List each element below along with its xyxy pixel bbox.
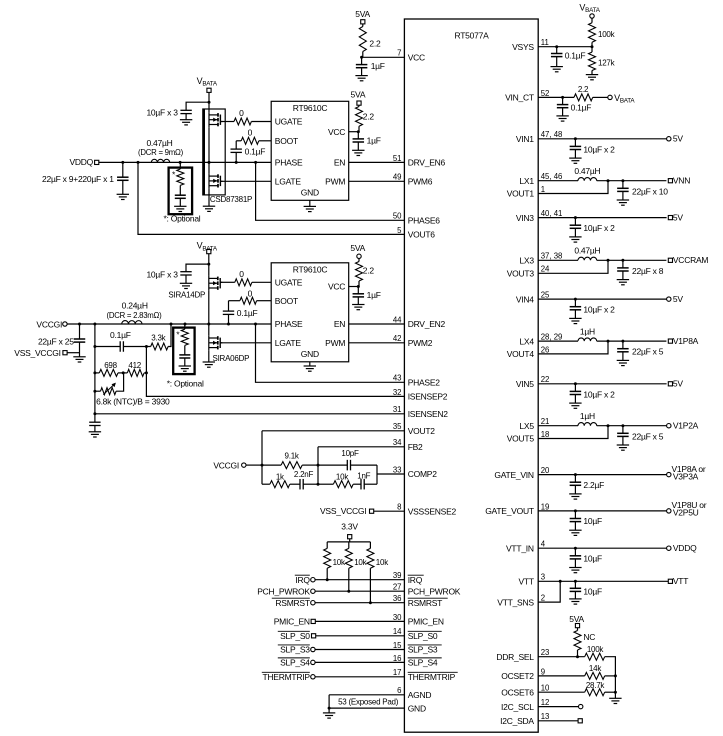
svg-text:SLP_S0: SLP_S0 — [280, 631, 310, 641]
svg-text:10µF x 2: 10µF x 2 — [583, 223, 615, 233]
svg-text:PWM2: PWM2 — [408, 338, 433, 348]
svg-text:VIN4: VIN4 — [516, 294, 534, 304]
ground (GATE_VIN cap) — [569, 493, 581, 495]
node 412/nodeB — [145, 371, 148, 374]
capacitor 0.1uF (BOOT 1) — [235, 141, 237, 149]
svg-text:43: 43 — [393, 374, 402, 383]
svg-text:EN: EN — [334, 319, 345, 329]
svg-text:ISENSEN2: ISENSEN2 — [408, 409, 449, 419]
svg-text:V2P5U: V2P5U — [673, 508, 699, 518]
svg-text:2.2µF: 2.2µF — [583, 480, 604, 490]
ground (LX3 cap) — [617, 279, 629, 281]
svg-text:UGATE: UGATE — [275, 117, 303, 127]
wire VOUT sense (LX1) — [538, 181, 608, 194]
port V1P8U or (GATE_VOUT) — [667, 509, 671, 513]
svg-text:LGATE: LGATE — [275, 177, 302, 187]
svg-text:RT9610C: RT9610C — [293, 103, 328, 113]
svg-text:VOUT1: VOUT1 — [507, 189, 535, 199]
svg-text:2.2: 2.2 — [369, 38, 381, 48]
svg-text:OCSET6: OCSET6 — [501, 687, 534, 697]
svg-text:5VA: 5VA — [569, 614, 584, 624]
svg-text:28, 29: 28, 29 — [541, 333, 563, 342]
svg-text:LX5: LX5 — [519, 421, 534, 431]
wire LGATE 2 — [220, 342, 271, 344]
svg-text:1µH: 1µH — [580, 411, 595, 421]
svg-text:PHASE2: PHASE2 — [408, 378, 441, 388]
svg-text:ISENSEP2: ISENSEP2 — [408, 392, 448, 402]
node boot cap / phase 2 — [227, 323, 230, 326]
node OCSET6 bus — [614, 691, 617, 694]
wire 5VA to R — [362, 24, 364, 27]
capacitor 10µF x 2 (VIN1) — [574, 139, 576, 147]
resistor 10k (PCH_PWROK) — [348, 542, 350, 549]
svg-text:VOUT6: VOUT6 — [408, 230, 436, 240]
svg-text:1µH: 1µH — [580, 327, 595, 337]
svg-text:10µF: 10µF — [583, 554, 602, 564]
node VDDQ bulk cap — [121, 161, 124, 164]
wire VSS_VCCGI to cap — [67, 352, 79, 354]
svg-text:32: 32 — [393, 388, 402, 397]
svg-text:33: 33 — [393, 465, 402, 474]
svg-text:35: 35 — [393, 422, 402, 431]
node FB2 top — [317, 464, 320, 467]
svg-text:20: 20 — [541, 466, 550, 475]
svg-text:31: 31 — [393, 405, 402, 414]
ground (input caps 1) — [180, 119, 192, 121]
svg-text:IRQ: IRQ — [408, 575, 423, 585]
node GATE_VIN cap — [574, 473, 577, 476]
svg-text:THERMTRIP: THERMTRIP — [408, 672, 456, 682]
ground (VSYS divider) — [586, 74, 598, 76]
svg-text:6: 6 — [397, 686, 401, 695]
transistor Q1 high-side (CSD87381P) — [208, 112, 210, 127]
wire VSYS pin 11 — [538, 46, 592, 48]
svg-text:PWM: PWM — [325, 177, 345, 187]
svg-text:45, 46: 45, 46 — [541, 172, 563, 181]
svg-text:1µF: 1µF — [371, 61, 385, 71]
svg-text:SIRA14DP: SIRA14DP — [168, 291, 205, 300]
ground (U2 GND) — [304, 205, 316, 207]
node U2 VCC — [357, 130, 360, 133]
svg-text:UGATE: UGATE — [275, 278, 303, 288]
svg-text:100k: 100k — [598, 30, 616, 39]
ground (VSYS cap) — [551, 66, 563, 68]
port VDDQ (VTT_IN) — [667, 546, 671, 550]
ground (VIN5 cap) — [569, 402, 581, 404]
svg-text:DRV_EN6: DRV_EN6 — [408, 158, 446, 168]
svg-text:44: 44 — [393, 315, 402, 324]
node GND — [328, 707, 331, 710]
svg-text:V3P3A: V3P3A — [673, 471, 699, 481]
svg-text:PHASE6: PHASE6 — [408, 216, 441, 226]
svg-text:0.47µH: 0.47µH — [574, 166, 600, 176]
node LX3 cap — [621, 259, 624, 262]
svg-text:3: 3 — [541, 573, 545, 582]
svg-text:0.1µF: 0.1µF — [571, 102, 592, 112]
svg-text:V1P2A: V1P2A — [673, 421, 699, 431]
wire VTT_IN — [538, 547, 666, 549]
svg-text:BOOT: BOOT — [275, 136, 298, 146]
capacitor 1uF (U3 VCC) — [357, 287, 359, 294]
svg-text:VOUT3: VOUT3 — [507, 269, 535, 279]
wire GATE_VOUT — [538, 510, 666, 512]
wire VOUT2 to pin 35 — [262, 430, 404, 432]
node VIN4 cap — [574, 298, 577, 301]
svg-text:SIRA06DP: SIRA06DP — [213, 354, 250, 363]
svg-text:0.1µF: 0.1µF — [565, 51, 586, 61]
svg-text:0: 0 — [248, 289, 253, 299]
svg-text:(DCR = 9mΩ): (DCR = 9mΩ) — [138, 148, 184, 157]
svg-text:10µF x 3: 10µF x 3 — [146, 107, 178, 117]
svg-text:34: 34 — [393, 438, 402, 447]
svg-text:V1P8A: V1P8A — [673, 336, 699, 346]
ground (U3 VCC cap) — [352, 304, 364, 306]
svg-text:GATE_VIN: GATE_VIN — [494, 470, 534, 480]
svg-text:698: 698 — [104, 361, 117, 370]
svg-text:VDDQ: VDDQ — [673, 543, 697, 553]
svg-text:IRQ: IRQ — [295, 575, 310, 585]
capacitor 0.1uF (VIN_CT) — [562, 97, 564, 104]
wire VBATA down (2) — [208, 254, 210, 276]
node LX3 sense — [607, 259, 610, 262]
ground (Q4 source) — [203, 361, 215, 363]
svg-text:42: 42 — [393, 334, 402, 343]
svg-text:VIN3: VIN3 — [516, 213, 534, 223]
capacitor 10µF x 2 (VIN5) — [574, 384, 576, 392]
node VIN_CT cap — [561, 96, 564, 99]
wire to VBATA port — [593, 96, 608, 98]
resistor 698 — [95, 372, 99, 374]
ground (input caps 2) — [180, 282, 192, 284]
wire PWM1 to PWM6 — [349, 180, 405, 182]
svg-text:0: 0 — [239, 269, 244, 279]
svg-text:BOOT: BOOT — [275, 296, 298, 306]
svg-text:EN: EN — [334, 158, 345, 168]
resistor 100k (DDR_SEL) — [585, 653, 605, 660]
ground (VIN1 cap) — [569, 157, 581, 159]
node LX4 sense — [607, 340, 610, 343]
svg-text:VTT: VTT — [518, 577, 533, 587]
node IRQ pullup — [326, 578, 329, 581]
capacitor 10µF (VTT_IN) — [574, 548, 576, 556]
node LX1 sense — [607, 179, 610, 182]
node optional RC — [179, 161, 182, 164]
port VTT — [668, 579, 672, 583]
svg-text:16: 16 — [393, 654, 402, 663]
capacitor (node A bottom) — [89, 421, 100, 423]
node VIN3 cap — [574, 216, 577, 219]
svg-text:5VA: 5VA — [350, 243, 365, 253]
svg-text:RT5077A: RT5077A — [454, 31, 489, 41]
svg-text:SLP_S4: SLP_S4 — [408, 658, 438, 668]
svg-text:0: 0 — [239, 108, 244, 118]
svg-text:10µF x 2: 10µF x 2 — [583, 389, 615, 399]
port 5V (VIN4) — [667, 297, 671, 301]
svg-text:GND: GND — [301, 188, 319, 198]
svg-text:24: 24 — [541, 265, 550, 274]
resistor 0 (BOOT 2) — [257, 300, 272, 302]
capacitor 10µF x 2 (VIN4) — [574, 299, 576, 307]
node A / RC row — [93, 345, 96, 348]
node RSMRST pullup — [369, 601, 372, 604]
svg-text:5VA: 5VA — [355, 9, 370, 19]
wire VCCGI phase line 2 — [67, 323, 271, 325]
resistor (optional snubber 1) — [179, 162, 181, 169]
ground (VTT cap) — [569, 598, 581, 600]
wire I2C_SCL pin 12 — [538, 706, 578, 708]
svg-text:10µF: 10µF — [583, 516, 602, 526]
wire GND (exposed pad) — [329, 707, 404, 709]
svg-text:52: 52 — [541, 89, 550, 98]
wire U3 VCC — [349, 286, 359, 288]
svg-text:VCCGI: VCCGI — [213, 460, 239, 470]
capacitor 22µF x 5 (LX4) — [622, 341, 624, 349]
svg-text:DDR_SEL: DDR_SEL — [496, 652, 534, 662]
svg-text:22: 22 — [541, 375, 550, 384]
node VBATA / 10uF x 3 (2) — [207, 263, 210, 266]
ground (optional snubber 1) — [174, 205, 186, 207]
svg-text:47, 48: 47, 48 — [541, 130, 563, 139]
wire to input caps 1 — [186, 102, 209, 110]
svg-text:NC: NC — [583, 632, 595, 642]
node VTT sense — [559, 580, 562, 583]
svg-text:PCH_PWROK: PCH_PWROK — [257, 586, 310, 596]
capacitor 0.1uF (VSYS) — [556, 47, 558, 54]
wire sense RC row — [95, 346, 120, 348]
svg-text:GND: GND — [301, 349, 319, 359]
capacitor (optional snubber 2) — [184, 345, 186, 355]
svg-text:10pF: 10pF — [341, 449, 359, 458]
svg-text:LGATE: LGATE — [275, 338, 302, 348]
capacitor 22µF x 8 (LX3) — [622, 260, 624, 268]
svg-text:10k: 10k — [376, 558, 389, 567]
svg-text:PHASE: PHASE — [275, 158, 303, 168]
gate driver U2 RT9610C (1) — [271, 101, 349, 200]
ground (VIN_CT cap) — [556, 115, 568, 117]
svg-text:40, 41: 40, 41 — [541, 209, 563, 218]
svg-text:VDDQ: VDDQ — [69, 157, 93, 167]
node GATE_VOUT cap — [574, 509, 577, 512]
svg-text:412: 412 — [128, 361, 141, 370]
svg-text:39: 39 — [393, 571, 402, 580]
ground (VIN3 cap) — [569, 236, 581, 238]
ground (VDDQ bulk cap) — [117, 193, 129, 195]
node phase (Q1/Q2) — [208, 161, 211, 164]
port V1P2A (LX5) — [667, 424, 671, 428]
wire LGATE 1 — [220, 180, 271, 182]
port 5V (VIN1) — [667, 137, 671, 141]
wire LX4 — [538, 340, 578, 342]
svg-text:CSD87381P: CSD87381P — [210, 195, 252, 204]
svg-text:10k: 10k — [333, 558, 346, 567]
wire EN1 to DRV_EN6 — [349, 161, 405, 163]
svg-text:2.2: 2.2 — [578, 85, 589, 94]
svg-text:22µF x 10: 22µF x 10 — [632, 186, 668, 196]
wire OCSET2 pin 9 — [538, 675, 585, 677]
capacitor 1uF (U2 VCC) — [357, 132, 359, 139]
wire U3 GND — [309, 362, 311, 366]
svg-text:PMIC_EN: PMIC_EN — [274, 617, 310, 627]
node optional RC 2 — [184, 323, 187, 326]
node PCH_PWROK pullup — [347, 590, 350, 593]
svg-text:3.3V: 3.3V — [341, 521, 358, 531]
svg-text:1nF: 1nF — [357, 471, 370, 480]
port VBATA (VIN_CT) — [608, 95, 612, 99]
node PHASE6 tap — [254, 161, 257, 164]
port 5V (VIN5) — [668, 382, 672, 386]
svg-text:PWM6: PWM6 — [408, 177, 433, 187]
wire COMP2 vertical — [376, 465, 378, 484]
svg-text:26: 26 — [541, 345, 550, 354]
resistor 9.1k — [262, 464, 281, 466]
svg-text:5V: 5V — [673, 213, 683, 223]
svg-text:VCC: VCC — [328, 127, 345, 137]
svg-text:AGND: AGND — [408, 690, 432, 700]
node comp VCCGI — [261, 464, 264, 467]
wire OCSET6 pin 10 — [538, 691, 585, 693]
node B tap — [145, 345, 148, 348]
node LX5 cap — [621, 424, 624, 427]
svg-text:VIN5: VIN5 — [516, 379, 534, 389]
svg-text:6.8k (NTC)/B = 3930: 6.8k (NTC)/B = 3930 — [96, 396, 170, 406]
MOSFET package CSD87381P — [203, 109, 225, 195]
wire VOUT sense (LX5) — [538, 426, 608, 439]
resistor 100k (VSYS) — [589, 23, 596, 43]
ground (LX5 cap) — [617, 444, 629, 446]
svg-text:*: Optional: *: Optional — [164, 214, 201, 224]
svg-text:37, 38: 37, 38 — [541, 252, 563, 261]
svg-text:VIN1: VIN1 — [516, 134, 534, 144]
wire ISENSEN2 row — [93, 412, 96, 415]
svg-text:25: 25 — [541, 291, 550, 300]
wire 3.3k to phase — [168, 324, 171, 347]
capacitor 0.1uF (BOOT 2) — [228, 301, 230, 311]
svg-text:27: 27 — [393, 583, 402, 592]
svg-text:30: 30 — [393, 613, 402, 622]
capacitor 10pF — [318, 464, 347, 466]
optional box (circuit 2) — [173, 328, 194, 375]
svg-text:LX3: LX3 — [519, 256, 534, 266]
gate driver U3 RT9610C (2) — [271, 263, 349, 362]
wire VTT_SNS pin 2 — [538, 581, 560, 602]
node VSYS divider — [591, 45, 594, 48]
wire VOUT sense (LX3) — [538, 260, 608, 273]
wire FB2 vertical — [317, 447, 319, 484]
wire to input caps 2 — [186, 264, 209, 271]
capacitor 2.2nF — [290, 483, 300, 485]
capacitor 2.2µF (GATE_VIN) — [574, 475, 576, 483]
ground (VTT_IN cap) — [569, 567, 581, 569]
wire LX3 — [538, 259, 578, 261]
svg-text:VIN_CT: VIN_CT — [505, 93, 534, 103]
resistor 0 (BOOT 1) — [259, 140, 271, 142]
svg-text:0.47µH: 0.47µH — [146, 138, 172, 148]
svg-text:10µF x 2: 10µF x 2 — [583, 305, 615, 315]
resistor 3.3k (sense) — [123, 346, 150, 348]
resistor 2.2 (VCC filter) — [359, 27, 366, 52]
wire VCC pin7 — [362, 56, 405, 58]
svg-text:PWM: PWM — [325, 338, 345, 348]
resistor 412 — [118, 372, 127, 374]
svg-text:VCCGI: VCCGI — [36, 319, 62, 329]
svg-text:*: Optional: *: Optional — [167, 379, 204, 389]
svg-text:VCC: VCC — [408, 53, 425, 63]
svg-text:5VA: 5VA — [351, 89, 366, 99]
svg-text:VSS_VCCGI: VSS_VCCGI — [320, 506, 366, 516]
svg-text:SLP_S3: SLP_S3 — [408, 645, 438, 655]
wire node B vertical to ISENSEP2 — [146, 347, 404, 397]
svg-text:23: 23 — [541, 648, 550, 657]
resistor 0 (UGATE 1) — [220, 121, 234, 123]
resistor (optional snubber 2) — [184, 324, 186, 329]
svg-text:PMIC_EN: PMIC_EN — [408, 617, 444, 627]
svg-text:(DCR = 2.83mΩ): (DCR = 2.83mΩ) — [107, 311, 163, 320]
ground (U3 GND) — [304, 365, 316, 367]
svg-text:SLP_S0: SLP_S0 — [408, 631, 438, 641]
capacitor 10µF x 2 (VIN3) — [574, 218, 576, 226]
resistor 10k — [318, 483, 333, 485]
main IC U1 RT5077A — [404, 19, 538, 732]
node VBATA / 10uF x 3 — [208, 101, 211, 104]
svg-text:15: 15 — [393, 641, 402, 650]
optional box (circuit 1) — [169, 168, 193, 215]
svg-text:THERMTRIP: THERMTRIP — [262, 672, 310, 682]
ground (GATE_VOUT cap) — [569, 529, 581, 531]
capacitor 0.1uF (sense) — [119, 341, 121, 352]
svg-text:2.2nF: 2.2nF — [294, 470, 314, 479]
resistor 0 (UGATE 2) — [220, 281, 235, 283]
svg-text:5V: 5V — [673, 379, 683, 389]
resistor 10k (IRQ) — [326, 542, 328, 549]
node 3.3k return — [170, 323, 173, 326]
svg-text:2.2: 2.2 — [363, 112, 375, 122]
svg-text:PCH_PWROK: PCH_PWROK — [408, 586, 461, 596]
resistor 127k (VSYS) — [589, 52, 596, 70]
svg-text:10µF x 2: 10µF x 2 — [583, 144, 615, 154]
ground (VCCGI bulk cap) — [73, 356, 85, 358]
svg-text:9: 9 — [541, 667, 545, 676]
svg-text:22µF x 9+220µF x 1: 22µF x 9+220µF x 1 — [42, 174, 114, 184]
port V1P8A (LX4) — [668, 339, 672, 343]
capacitor 1nF — [353, 483, 361, 485]
capacitor 22µF x 5 (LX5) — [622, 426, 624, 434]
svg-text:14k: 14k — [589, 664, 602, 673]
node VSYS cap — [555, 45, 558, 48]
wire Q2 source to ground — [208, 188, 210, 206]
svg-text:100k: 100k — [587, 645, 605, 654]
capacitor (optional snubber 1) — [179, 185, 181, 195]
resistor NC — [574, 631, 581, 651]
ground (node A cap) — [89, 431, 101, 433]
wire I2C_SDA pin 13 — [538, 720, 578, 722]
ground (exposed pad) — [328, 708, 330, 713]
wire DDR_SEL pin 23 — [538, 656, 585, 658]
node PHASE2 tap — [254, 323, 257, 326]
ground (LX1 cap) — [617, 199, 629, 201]
capacitor 10uF (VTT) — [574, 581, 576, 588]
port 5V (VIN3) — [668, 216, 672, 220]
wire Q4 source to ground — [208, 350, 210, 362]
svg-text:0.24µH: 0.24µH — [122, 301, 148, 311]
wire Q1 source to phase — [208, 127, 210, 173]
svg-text:10k: 10k — [336, 473, 349, 482]
svg-text:LX1: LX1 — [519, 176, 534, 186]
wire VIN3 — [538, 217, 666, 219]
svg-text:14: 14 — [393, 627, 402, 636]
svg-text:VSS_VCCGI: VSS_VCCGI — [14, 348, 60, 358]
wire AGND — [329, 694, 404, 696]
svg-text:VCCRAM: VCCRAM — [673, 255, 709, 265]
